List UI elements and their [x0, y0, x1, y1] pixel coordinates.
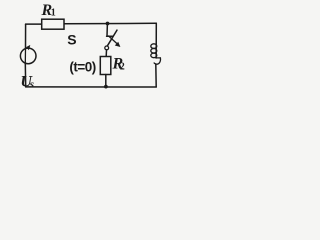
wire left	[25, 24, 27, 48]
svg-text:2: 2	[120, 62, 125, 73]
svg-text:(t=0): (t=0)	[69, 59, 95, 74]
resistor R1	[42, 19, 64, 29]
svg-text:1: 1	[51, 8, 56, 19]
voltage source Us	[20, 48, 36, 64]
inductor bottom tick	[156, 57, 161, 59]
inductor bottom loop	[154, 58, 160, 64]
wire bottom	[26, 86, 157, 88]
switch pivot	[105, 46, 109, 50]
node dot top	[106, 22, 110, 26]
wire top	[26, 23, 42, 25]
switch motion arrow	[109, 36, 118, 44]
switch fixed contact foot	[107, 35, 113, 37]
source arrowhead	[26, 45, 30, 50]
node dot bottom	[104, 85, 108, 89]
svg-text:S: S	[67, 32, 76, 48]
resistor R2	[100, 57, 111, 75]
wire R2 to bottom	[105, 75, 107, 87]
wire right	[155, 23, 157, 58]
inductor L coil loops	[151, 44, 157, 49]
switch S stub	[106, 24, 108, 37]
switch blade	[107, 30, 117, 46]
wire pivot to R2	[105, 50, 107, 57]
svg-text:s: s	[29, 79, 34, 91]
